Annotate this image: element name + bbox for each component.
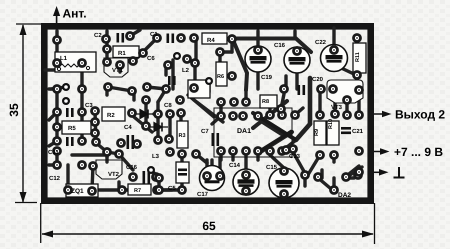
svg-text:VT3: VT3 [331,104,343,111]
svg-text:C3: C3 [85,102,93,109]
svg-text:L1: L1 [60,55,68,62]
svg-text:35: 35 [7,103,21,117]
svg-text:C14: C14 [229,162,241,169]
svg-text:R5: R5 [68,125,76,132]
svg-text:ZQ1: ZQ1 [71,188,84,195]
svg-text:R1: R1 [118,50,126,57]
svg-text:C13: C13 [289,153,301,160]
svg-text:VT2: VT2 [108,171,120,178]
svg-text:C4: C4 [124,124,132,131]
svg-text:R8: R8 [262,99,269,105]
svg-text:C7: C7 [201,128,209,135]
svg-text:R6: R6 [217,74,224,80]
svg-text:R11: R11 [355,52,361,62]
svg-text:C12: C12 [49,175,61,182]
svg-text:C20: C20 [312,76,324,83]
svg-text:R3: R3 [179,133,186,139]
svg-text:DA2: DA2 [338,192,351,199]
svg-text:L3: L3 [152,153,160,160]
svg-text:Ант.: Ант. [63,7,87,21]
svg-text:DA1: DA1 [237,128,251,135]
svg-text:R9: R9 [314,129,320,136]
svg-text:C19: C19 [261,74,273,81]
svg-text:R2: R2 [107,112,115,119]
svg-text:C16: C16 [126,164,138,171]
svg-text:C1: C1 [150,31,158,38]
svg-text:C16: C16 [274,42,286,49]
svg-text:C17: C17 [197,191,209,198]
svg-text:C21: C21 [352,128,364,135]
svg-text:65: 65 [202,219,216,233]
svg-text:C11: C11 [48,149,59,156]
svg-text:R10: R10 [328,119,334,129]
svg-text:C15: C15 [266,164,278,171]
svg-text:R4: R4 [207,37,215,44]
svg-text:C5: C5 [168,185,176,192]
svg-text:C6: C6 [147,55,155,62]
svg-text:Выход 2: Выход 2 [395,108,445,122]
svg-text:C8: C8 [164,102,172,109]
svg-text:C2: C2 [94,32,102,39]
svg-text:VT1: VT1 [112,67,124,74]
svg-text:L2: L2 [182,67,190,74]
svg-text:C22: C22 [315,39,327,46]
svg-text:+7 ... 9 В: +7 ... 9 В [394,145,443,159]
svg-text:R7: R7 [134,188,141,194]
